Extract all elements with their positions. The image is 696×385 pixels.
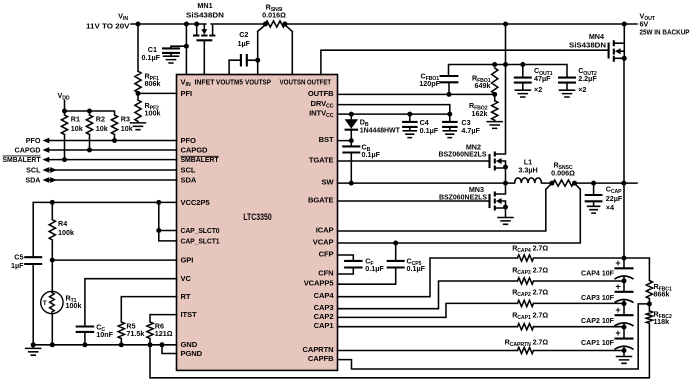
svg-text:VOUTSN: VOUTSN (280, 78, 306, 87)
svg-text:+: + (615, 258, 620, 268)
svg-text:0.1µF: 0.1µF (420, 126, 439, 135)
svg-text:162k: 162k (472, 109, 488, 118)
svg-text:PFO: PFO (181, 136, 197, 145)
svg-text:TGATE: TGATE (309, 156, 334, 165)
svg-text:CAPGD: CAPGD (181, 145, 209, 154)
svg-text:25W IN BACKUP: 25W IN BACKUP (640, 28, 690, 37)
svg-text:×2: ×2 (534, 85, 542, 94)
svg-text:0.006Ω: 0.006Ω (551, 168, 575, 177)
svg-text:CAPFB: CAPFB (308, 354, 334, 363)
svg-text:100k: 100k (66, 301, 82, 310)
svg-text:806k: 806k (145, 79, 161, 88)
svg-text:CAP2: CAP2 (314, 312, 334, 321)
svg-text:CAP3 10F: CAP3 10F (581, 293, 615, 302)
svg-text:0.1µF: 0.1µF (365, 264, 384, 273)
svg-text:10nF: 10nF (96, 330, 113, 339)
svg-text:CAP2 10F: CAP2 10F (581, 316, 615, 325)
svg-text:1µF: 1µF (238, 39, 251, 48)
svg-text:VOUTM5: VOUTM5 (216, 78, 244, 87)
svg-text:1µF: 1µF (11, 261, 24, 270)
svg-text:CFP: CFP (319, 250, 334, 259)
svg-text:VCC2P5: VCC2P5 (181, 198, 211, 207)
svg-text:+: + (615, 281, 620, 291)
svg-text:0.1µF: 0.1µF (362, 150, 381, 159)
svg-text:2.2µF: 2.2µF (578, 74, 597, 83)
svg-text:R1: R1 (71, 115, 80, 124)
svg-text:CAPGD: CAPGD (15, 145, 41, 154)
svg-text:SiS438DN: SiS438DN (569, 40, 606, 49)
svg-text:71.5k: 71.5k (126, 329, 144, 338)
svg-text:MN1: MN1 (197, 1, 212, 10)
svg-text:BSZ060NE2LS: BSZ060NE2LS (439, 150, 487, 159)
svg-text:×2: ×2 (578, 85, 586, 94)
svg-text:BSZ060NE2LS: BSZ060NE2LS (439, 193, 487, 202)
svg-text:10k: 10k (121, 124, 133, 133)
svg-text:×4: ×4 (606, 203, 614, 212)
svg-text:SCL: SCL (26, 165, 41, 174)
svg-text:47µF: 47µF (534, 74, 551, 83)
svg-text:866k: 866k (654, 289, 670, 298)
svg-text:CAP3: CAP3 (314, 303, 334, 312)
svg-text:CAP_SLCT0: CAP_SLCT0 (181, 226, 220, 235)
svg-text:VCAPP5: VCAPP5 (304, 279, 335, 288)
svg-text:OUTFB: OUTFB (308, 89, 334, 98)
svg-text:CAP1 10F: CAP1 10F (581, 338, 615, 347)
svg-text:CFN: CFN (318, 269, 333, 278)
svg-text:R2: R2 (96, 115, 105, 124)
svg-text:649k: 649k (475, 81, 491, 90)
svg-text:GND: GND (181, 340, 198, 349)
svg-text:10k: 10k (96, 124, 108, 133)
svg-text:0.1µF: 0.1µF (141, 53, 160, 62)
svg-text:R3: R3 (121, 115, 130, 124)
svg-text:SDA: SDA (25, 175, 40, 184)
svg-text:0.016Ω: 0.016Ω (262, 10, 286, 19)
svg-text:T: T (43, 300, 47, 307)
svg-text:0.1µF: 0.1µF (407, 264, 426, 273)
svg-text:118k: 118k (654, 317, 670, 326)
svg-text:VCAP: VCAP (313, 238, 334, 247)
svg-text:PFI: PFI (181, 89, 193, 98)
svg-text:SiS438DN: SiS438DN (186, 11, 224, 20)
svg-text:BST: BST (319, 135, 334, 144)
svg-text:22µF: 22µF (606, 194, 623, 203)
svg-text:11V TO 20V: 11V TO 20V (86, 22, 130, 31)
svg-text:RT: RT (181, 292, 191, 301)
svg-text:CAP4: CAP4 (314, 291, 335, 300)
svg-text:GPI: GPI (181, 256, 194, 265)
svg-text:VOUTSP: VOUTSP (245, 78, 271, 87)
svg-text:C2: C2 (239, 30, 248, 39)
svg-text:OUTFET: OUTFET (307, 78, 331, 87)
svg-text:VC: VC (181, 274, 192, 283)
svg-text:CAP1: CAP1 (314, 321, 335, 330)
svg-text:R4: R4 (58, 219, 67, 228)
svg-text:SDA: SDA (181, 175, 197, 184)
svg-text:ICAP: ICAP (316, 226, 334, 235)
svg-text:3.3µH: 3.3µH (518, 165, 537, 174)
svg-text:121Ω: 121Ω (155, 329, 173, 338)
svg-text:SW: SW (321, 178, 334, 187)
svg-text:1N4448HWT: 1N4448HWT (360, 125, 401, 134)
svg-text:PFO: PFO (26, 136, 41, 145)
svg-text:INFET: INFET (195, 78, 215, 87)
svg-text:BGATE: BGATE (308, 196, 334, 205)
svg-text:PGND: PGND (181, 349, 203, 358)
svg-text:CAP_SLCT1: CAP_SLCT1 (181, 236, 221, 245)
svg-text:ITST: ITST (181, 310, 198, 319)
svg-text:+: + (615, 328, 620, 338)
svg-text:4.7µF: 4.7µF (461, 126, 480, 135)
svg-text:10k: 10k (71, 124, 83, 133)
svg-text:SCL: SCL (181, 165, 196, 174)
svg-text:100k: 100k (58, 228, 74, 237)
svg-text:LTC3350: LTC3350 (243, 212, 272, 223)
svg-text:120pF: 120pF (419, 79, 440, 88)
svg-text:+: + (615, 305, 620, 315)
svg-text:100k: 100k (145, 109, 161, 118)
svg-text:CAP4 10F: CAP4 10F (581, 268, 615, 277)
svg-text:CAPRTN: CAPRTN (302, 345, 333, 354)
